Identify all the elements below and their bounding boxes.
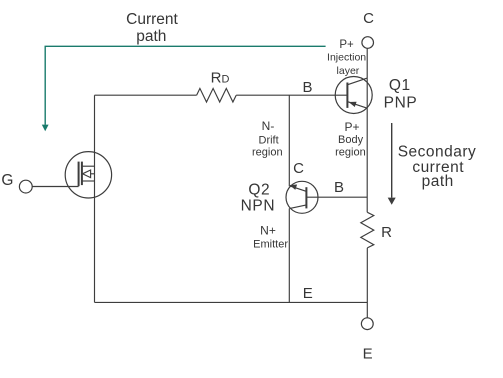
current path arrow (teal) <box>42 46 326 131</box>
terminal E circle <box>361 318 373 330</box>
svg-text:R: R <box>381 224 392 241</box>
mosfet drain stub <box>82 165 95 167</box>
wire: bottom horizontal rail <box>95 301 368 303</box>
wire: gate lead <box>32 186 78 188</box>
Q2 collector lead <box>290 186 306 191</box>
Q1 collector lead (bottom) <box>348 102 367 108</box>
svg-text:Q1: Q1 <box>389 77 411 94</box>
svg-text:C: C <box>293 160 304 177</box>
Q2 base bar <box>305 187 307 208</box>
mosfet channel bar <box>81 162 83 186</box>
svg-text:N-: N- <box>262 119 275 133</box>
svg-text:path: path <box>136 28 166 45</box>
svg-text:Body: Body <box>338 134 364 146</box>
svg-text:Current: Current <box>126 11 178 28</box>
Q1 emitter lead (top) <box>348 78 367 85</box>
svg-text:N+: N+ <box>260 224 276 238</box>
svg-text:G: G <box>1 172 13 189</box>
svg-text:PNP: PNP <box>384 94 418 111</box>
wire: left vertical rail <box>94 95 96 302</box>
resistor R <box>361 212 374 248</box>
svg-text:Q2: Q2 <box>248 182 270 199</box>
transistor Q2 circle <box>286 181 318 213</box>
wire: Q2 emitter drop to bottom rail <box>288 209 290 303</box>
svg-text:Emitter: Emitter <box>253 238 288 250</box>
svg-text:region: region <box>335 147 366 159</box>
terminal G circle <box>19 180 32 193</box>
svg-text:Injection: Injection <box>327 52 366 64</box>
Q2 collector arrowhead <box>290 185 298 190</box>
svg-text:B: B <box>302 79 312 96</box>
wire: node B drop to Q2 collector <box>288 95 290 186</box>
mosfet body arrow <box>83 170 91 178</box>
terminal C circle <box>362 37 374 49</box>
svg-text:Secondary: Secondary <box>398 144 477 161</box>
secondary current path arrow <box>388 123 396 205</box>
svg-text:region: region <box>252 147 283 159</box>
svg-text:NPN: NPN <box>241 197 276 214</box>
wire: Q2 base wire <box>306 196 367 198</box>
svg-text:E: E <box>363 346 373 363</box>
svg-text:path: path <box>422 173 454 190</box>
mosfet body stub <box>82 173 95 175</box>
svg-text:P+: P+ <box>344 120 359 134</box>
Q2 emitter lead <box>289 205 305 209</box>
svg-text:C: C <box>363 10 374 27</box>
svg-text:RD: RD <box>211 70 230 87</box>
transistor Q1 circle <box>335 77 372 114</box>
svg-text:E: E <box>303 285 313 302</box>
svg-text:layer: layer <box>337 65 360 77</box>
resistor RD <box>197 88 237 102</box>
wire: C terminal to Q1 emitter <box>366 48 368 78</box>
mosfet M1 circle <box>65 152 111 198</box>
Q1 base bar <box>346 83 348 108</box>
mosfet gate bar <box>78 162 80 187</box>
wire: C-E vertical through Q1 <box>366 78 368 108</box>
wire: R bottom to E terminal <box>366 248 368 318</box>
wire: top horizontal rail left of RD <box>95 94 197 96</box>
svg-text:Drift: Drift <box>259 135 279 147</box>
svg-text:P+: P+ <box>339 39 354 51</box>
mosfet source stub <box>82 180 95 182</box>
wire: top horizontal rail right of RD to Q1 base <box>236 94 347 96</box>
svg-text:B: B <box>334 179 344 196</box>
Q1 emitter arrowhead <box>349 102 357 107</box>
wire: Q1 collector down to node B junction <box>366 108 368 212</box>
